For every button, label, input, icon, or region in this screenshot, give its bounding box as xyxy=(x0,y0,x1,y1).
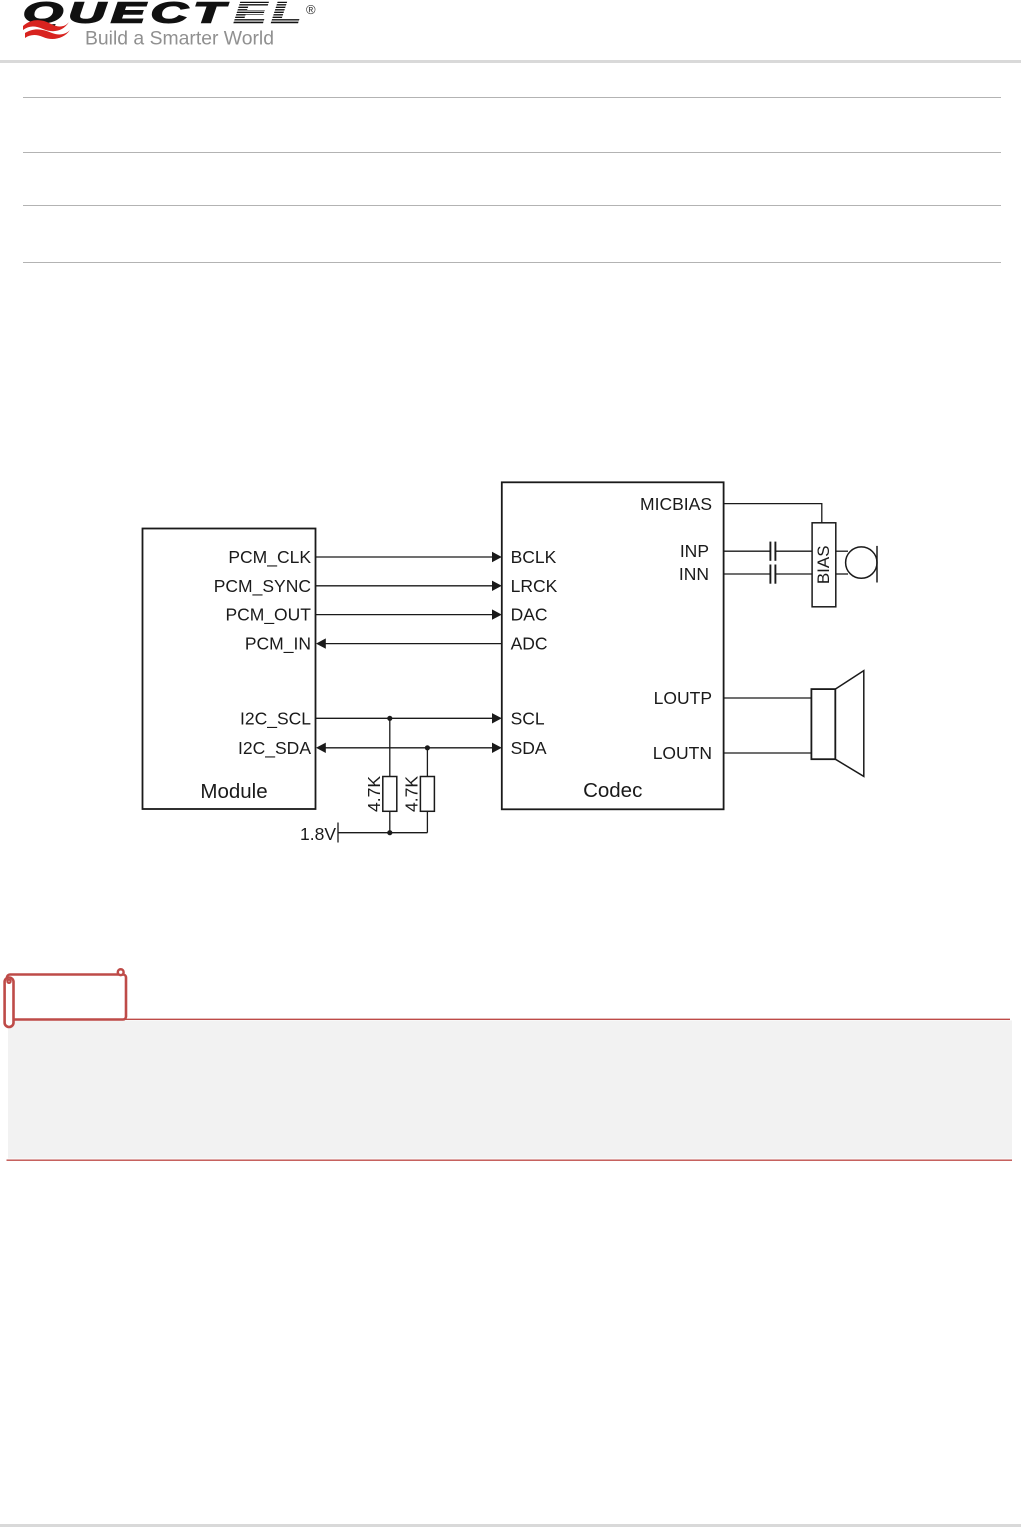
capacitor C1 plates xyxy=(770,542,775,561)
junction rail-R1 xyxy=(387,830,392,835)
wire BIAS to mic INP xyxy=(836,550,848,552)
BIAS block xyxy=(812,523,836,607)
svg-text:ADC: ADC xyxy=(511,634,548,654)
note top red rule xyxy=(6,1018,1010,1020)
microphone MK1 xyxy=(846,547,877,578)
svg-text:EL: EL xyxy=(234,0,306,30)
header rule xyxy=(0,60,1021,63)
svg-text:INP: INP xyxy=(680,541,709,561)
codec U2 box xyxy=(502,482,724,809)
resistor R1 body xyxy=(383,777,397,812)
note bottom red rule xyxy=(7,1159,1013,1161)
wire PCM_CLK to BCLK xyxy=(316,556,493,558)
1.8V source tick xyxy=(337,823,339,843)
svg-text:PCM_SYNC: PCM_SYNC xyxy=(214,576,311,597)
red swoosh xyxy=(23,20,69,31)
note scroll banner xyxy=(5,969,126,1027)
svg-text:LRCK: LRCK xyxy=(511,576,558,596)
note scroll tab xyxy=(0,960,1021,1170)
svg-text:Codec: Codec xyxy=(583,779,642,802)
junction SCL-R1 xyxy=(387,716,392,721)
wire R1 pullup vertical xyxy=(389,718,391,776)
wire 1.8V rail xyxy=(338,832,427,834)
wire LOUTN xyxy=(724,752,812,754)
svg-text:LOUTP: LOUTP xyxy=(654,688,712,708)
svg-text:I2C_SDA: I2C_SDA xyxy=(238,738,311,759)
arrowhead SDA left xyxy=(316,743,326,753)
resistor R2 body xyxy=(420,777,434,812)
svg-text:SCL: SCL xyxy=(511,708,545,728)
Quectel logo xyxy=(0,0,340,56)
svg-text:PCM_CLK: PCM_CLK xyxy=(228,547,311,568)
svg-text:INN: INN xyxy=(679,564,709,584)
junction SDA-R2 xyxy=(425,745,430,750)
svg-text:QUECT: QUECT xyxy=(23,0,230,30)
svg-text:4.7K: 4.7K xyxy=(364,776,384,812)
svg-text:1.8V: 1.8V xyxy=(300,824,336,844)
arrowhead BCLK xyxy=(492,552,502,562)
wire PCM_SYNC to LRCK xyxy=(316,585,493,587)
wire INP xyxy=(724,550,770,552)
svg-text:DAC: DAC xyxy=(511,605,548,625)
capacitor C2 plates xyxy=(770,565,775,584)
svg-text:PCM_IN: PCM_IN xyxy=(245,634,311,655)
arrowhead PCM_IN xyxy=(316,638,326,648)
svg-text:4.7K: 4.7K xyxy=(402,776,422,812)
svg-text:BCLK: BCLK xyxy=(511,547,557,567)
svg-text:®: ® xyxy=(306,2,316,17)
arrowhead LRCK xyxy=(492,581,502,591)
striped E L xyxy=(234,0,306,30)
note body shading xyxy=(8,1021,1012,1159)
arrowhead SDA right xyxy=(492,743,502,753)
svg-text:Module: Module xyxy=(200,780,267,803)
wire BIAS to mic INN xyxy=(836,573,848,575)
svg-text:SDA: SDA xyxy=(511,738,547,758)
svg-text:I2C_SCL: I2C_SCL xyxy=(240,708,311,729)
svg-text:Build a Smarter World: Build a Smarter World xyxy=(85,28,274,50)
wire R2 pullup vertical xyxy=(426,748,428,777)
svg-text:LOUTN: LOUTN xyxy=(653,743,712,763)
module U1 box xyxy=(143,529,316,810)
wire PCM_OUT to DAC xyxy=(316,614,493,616)
arrowhead DAC xyxy=(492,609,502,619)
speaker LS1 xyxy=(835,671,864,777)
wire MICBIAS xyxy=(724,504,822,523)
svg-text:MICBIAS: MICBIAS xyxy=(640,494,712,514)
wire INN xyxy=(724,573,770,575)
table row lines xyxy=(23,97,1001,98)
wire LOUTP xyxy=(724,697,812,699)
svg-text:PCM_OUT: PCM_OUT xyxy=(225,605,311,626)
arrowhead SCL xyxy=(492,713,502,723)
svg-text:BIAS: BIAS xyxy=(814,545,833,584)
wire ADC to PCM_IN xyxy=(325,643,502,645)
footer rule xyxy=(0,1524,1021,1527)
wire SDA xyxy=(325,747,493,749)
wire SCL xyxy=(316,717,493,719)
